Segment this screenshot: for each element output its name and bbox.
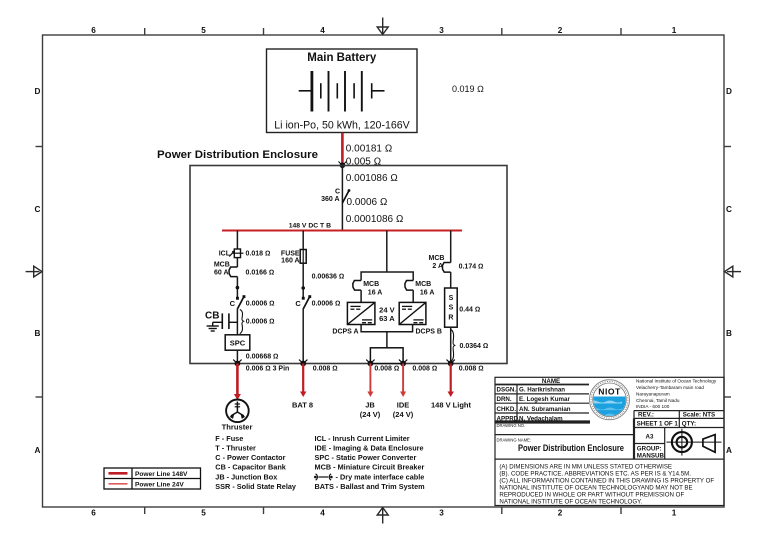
- wire: enclosure entry down to switch: [341, 166, 343, 203]
- svg-text:C - Power Contactor: C - Power Contactor: [215, 453, 285, 462]
- svg-text:0.0006 Ω: 0.0006 Ω: [312, 301, 341, 308]
- wire: fuse to contactor: [302, 263, 304, 298]
- wire: splitter horizontal: [361, 272, 413, 281]
- enclosure box: [190, 166, 507, 364]
- svg-text:A: A: [35, 446, 41, 455]
- svg-text:0.008 Ω: 0.008 Ω: [374, 365, 399, 372]
- power wire 24V to IDE: [402, 364, 404, 393]
- svg-text:Velacherry-Tambaram main road: Velacherry-Tambaram main road: [636, 385, 704, 390]
- svg-text:C: C: [230, 299, 236, 308]
- svg-text:MCB: MCB: [214, 262, 230, 269]
- svg-text:NAME: NAME: [542, 378, 560, 385]
- legend swatch: power line 24V: [109, 483, 128, 485]
- svg-text:JB - Junction Box: JB - Junction Box: [215, 472, 277, 481]
- NIOT logo: [590, 380, 630, 420]
- svg-text:16 A: 16 A: [420, 290, 435, 297]
- wire: bus to fuse: [302, 231, 304, 250]
- svg-text:D: D: [726, 87, 732, 96]
- static power converter SPC: [225, 335, 250, 350]
- svg-text:63 A: 63 A: [379, 314, 395, 323]
- svg-text:4: 4: [320, 26, 325, 35]
- svg-text:0.0001086 Ω: 0.0001086 Ω: [346, 214, 404, 225]
- svg-text:0.00668 Ω: 0.00668 Ω: [246, 354, 279, 361]
- svg-text:REPRODUCED IN WHOLE OR PART WI: REPRODUCED IN WHOLE OR PART WITHOUT PREM…: [499, 492, 684, 499]
- svg-text:R: R: [448, 315, 453, 322]
- svg-text:0.0006 Ω: 0.0006 Ω: [246, 319, 275, 326]
- wire: DCPS outputs to junction box: [361, 325, 413, 332]
- fuse FUSE 160 A: [281, 250, 306, 265]
- svg-text:16 A: 16 A: [368, 290, 383, 297]
- svg-text:Thruster: Thruster: [222, 423, 253, 432]
- breaker MCB 16 A (B): [405, 281, 435, 297]
- legend text left column: [215, 434, 297, 491]
- svg-text:(B). CODE PRACTICE. ABBREVIATI: (B). CODE PRACTICE. ABBREVIATIONS ETC. A…: [499, 471, 691, 478]
- wire: bus to ICL: [236, 231, 238, 250]
- svg-text:Main Battery: Main Battery: [307, 52, 377, 64]
- svg-text:REV.:: REV.:: [638, 412, 654, 419]
- node: junction at enclosure top: [338, 162, 342, 166]
- svg-text:4: 4: [320, 509, 325, 518]
- svg-text:0.0006 Ω: 0.0006 Ω: [246, 301, 275, 308]
- svg-text:C: C: [335, 189, 340, 196]
- node JB right: [399, 360, 407, 367]
- power wire 148V to BAT 8: [302, 364, 304, 393]
- svg-text:DRAWING NAME:: DRAWING NAME:: [497, 438, 532, 443]
- svg-text:C: C: [35, 205, 41, 214]
- svg-text:MCB - Miniature Circuit Breake: MCB - Miniature Circuit Breaker: [315, 463, 425, 472]
- svg-text:Power Line 148V: Power Line 148V: [135, 471, 188, 478]
- svg-text:Power Distribution Enclosure: Power Distribution Enclosure: [518, 443, 624, 453]
- node JB left: [366, 360, 374, 367]
- svg-text:ICL - Inrush Current Limiter: ICL - Inrush Current Limiter: [315, 434, 410, 443]
- svg-text:T - Thruster: T - Thruster: [215, 443, 256, 452]
- breaker MCB 16 A (A): [353, 281, 383, 297]
- svg-text:1: 1: [672, 509, 677, 518]
- svg-text:G. Harikrishnan: G. Harikrishnan: [519, 387, 565, 394]
- svg-text:1: 1: [672, 26, 677, 35]
- capacitor bank CB: [205, 310, 237, 329]
- power wire 24V to JB: [369, 364, 371, 393]
- svg-text:0.0166 Ω: 0.0166 Ω: [246, 270, 275, 277]
- svg-text:CB - Capacitor Bank: CB - Capacitor Bank: [215, 463, 286, 472]
- svg-text:MCB: MCB: [429, 255, 445, 262]
- projection symbol: [667, 429, 722, 456]
- svg-text:APPRD.: APPRD.: [497, 415, 521, 422]
- svg-text:0.006 Ω 3 Pin: 0.006 Ω 3 Pin: [246, 365, 290, 372]
- svg-text:- Dry mate interface cable: - Dry mate interface cable: [336, 472, 425, 481]
- address block: [636, 379, 717, 409]
- wire: bus to MCB 2A: [450, 231, 452, 263]
- converter DCPS B: [399, 302, 426, 324]
- svg-text:SPC: SPC: [230, 338, 246, 347]
- svg-text:DRAWING NO.: DRAWING NO.: [497, 423, 526, 428]
- svg-text:0.174 Ω: 0.174 Ω: [459, 264, 484, 271]
- svg-text:CB: CB: [205, 310, 219, 321]
- wire: contactor to enclosure bottom: [302, 308, 304, 363]
- svg-text:0.008 Ω: 0.008 Ω: [412, 365, 437, 372]
- wire: SPC to enclosure bottom: [236, 350, 238, 363]
- wire: bus to splitter: [386, 231, 388, 273]
- notes text: [499, 464, 714, 506]
- svg-text:INDIA - 600 100: INDIA - 600 100: [636, 404, 670, 409]
- svg-text:F - Fuse: F - Fuse: [215, 434, 243, 443]
- switch C 360 A: [321, 189, 350, 204]
- wire: battery to enclosure, 148V power line: [341, 133, 344, 165]
- svg-text:IDE - Imaging & Data Enclosure: IDE - Imaging & Data Enclosure: [315, 443, 424, 452]
- svg-text:0.00636 Ω: 0.00636 Ω: [312, 274, 345, 281]
- breaker MCB 2 A: [429, 255, 451, 272]
- svg-text:CHKD.: CHKD.: [497, 406, 517, 413]
- svg-text:160 A: 160 A: [281, 258, 299, 265]
- wire: contactor to SPC: [236, 308, 238, 335]
- legend symbol: dry mate connector: [314, 474, 333, 480]
- svg-text:0.00181 Ω: 0.00181 Ω: [346, 144, 393, 155]
- svg-text:QTY:: QTY:: [682, 421, 696, 428]
- node: [236, 286, 240, 290]
- svg-text:Power Distribution Enclosure: Power Distribution Enclosure: [157, 149, 318, 161]
- svg-text:2 A: 2 A: [432, 263, 443, 270]
- svg-text:ICL: ICL: [219, 251, 231, 258]
- bus: 148 V DC TB: [222, 230, 462, 232]
- svg-text:NIOT: NIOT: [598, 387, 621, 397]
- svg-text:BATS - Ballast and Trim System: BATS - Ballast and Trim System: [315, 482, 426, 491]
- svg-text:148 V Light: 148 V Light: [431, 401, 472, 410]
- wire: switch to bus: [341, 203, 343, 231]
- svg-text:0.008 Ω: 0.008 Ω: [459, 365, 484, 372]
- svg-text:AN. Subramanian: AN. Subramanian: [519, 406, 571, 413]
- svg-text:S: S: [449, 305, 454, 312]
- svg-text:N. Vedachalam: N. Vedachalam: [519, 415, 563, 422]
- relay SSR: [445, 288, 458, 327]
- title block: [495, 377, 724, 505]
- svg-text:MANSUB: MANSUB: [637, 452, 665, 459]
- legend text right column: [315, 434, 426, 491]
- svg-text:Chennai, Tamil Nadu: Chennai, Tamil Nadu: [636, 398, 680, 403]
- svg-text:(C) ALL INFORMANTION CONTAINED: (C) ALL INFORMANTION CONTAINED IN THIS D…: [499, 478, 714, 485]
- svg-text:5: 5: [201, 509, 206, 518]
- contactor C (thruster): [230, 295, 246, 308]
- svg-text:148 V DC T B: 148 V DC T B: [289, 223, 331, 230]
- svg-text:National Institute of Ocean Te: National Institute of Ocean Technology: [636, 379, 717, 384]
- node: [447, 360, 455, 367]
- wire: MCB to contactor: [236, 277, 238, 298]
- svg-text:6: 6: [91, 509, 96, 518]
- power wire 148V to thruster: [236, 364, 239, 396]
- battery B1 Main Battery: [267, 49, 418, 133]
- svg-text:0.44 Ω: 0.44 Ω: [459, 307, 480, 314]
- svg-text:S: S: [449, 295, 454, 302]
- svg-text:360 A: 360 A: [321, 196, 339, 203]
- svg-text:Li ion-Po, 50 kWh, 120-166V: Li ion-Po, 50 kWh, 120-166V: [274, 120, 410, 132]
- svg-text:SHEET 1 OF 1: SHEET 1 OF 1: [637, 421, 679, 428]
- svg-text:FUSE: FUSE: [281, 251, 300, 258]
- svg-text:(A) DIMENSIONS ARE IN MM UNLES: (A) DIMENSIONS ARE IN MM UNLESS STATED O…: [499, 464, 672, 471]
- power wire 148V to light: [450, 364, 452, 393]
- svg-text:DSGN.: DSGN.: [497, 387, 517, 394]
- svg-text:0.0006 Ω: 0.0006 Ω: [347, 197, 388, 208]
- svg-text:0.019 Ω: 0.019 Ω: [452, 84, 484, 94]
- svg-text:DRN.: DRN.: [497, 396, 512, 403]
- brace and value label 0.0364 ohm: [451, 330, 455, 362]
- node: 3 pin bulkhead: [233, 360, 241, 367]
- svg-text:0.001086 Ω: 0.001086 Ω: [346, 173, 398, 184]
- thruster T: [226, 400, 249, 423]
- svg-text:BAT 8: BAT 8: [292, 401, 313, 410]
- svg-text:E. Logesh Kumar: E. Logesh Kumar: [519, 396, 570, 403]
- svg-text:(24 V): (24 V): [360, 410, 381, 419]
- legend key box: [104, 468, 201, 489]
- inrush current limiter ICL: [219, 249, 244, 258]
- svg-text:A: A: [726, 446, 732, 455]
- svg-text:Narayanapuram: Narayanapuram: [636, 392, 670, 397]
- svg-text:0.0364 Ω: 0.0364 Ω: [460, 343, 489, 350]
- wire: MCB to DCPS B: [412, 290, 414, 302]
- wire: MCB to DCPS A: [360, 290, 362, 302]
- svg-text:5: 5: [201, 26, 206, 35]
- wire: MCB to SSR: [450, 272, 452, 288]
- converter DCPS A: [347, 302, 375, 324]
- contactor C (BAT): [295, 295, 311, 308]
- svg-text:2: 2: [558, 26, 563, 35]
- svg-text:D: D: [35, 87, 41, 96]
- wire: ICL to MCB: [236, 258, 238, 267]
- svg-text:C: C: [726, 205, 732, 214]
- svg-text:A3: A3: [646, 433, 654, 440]
- breaker MCB 60 A: [214, 262, 238, 277]
- svg-text:NATIONAL INSTITUTE OF OCEAN TE: NATIONAL INSTITUTE OF OCEAN TECHNOLOGYAN…: [499, 485, 692, 492]
- node: [299, 360, 307, 367]
- node: [301, 286, 305, 290]
- svg-text:B: B: [726, 329, 732, 338]
- svg-text:0.018 Ω: 0.018 Ω: [246, 251, 271, 258]
- svg-text:2: 2: [558, 509, 563, 518]
- ground: [207, 322, 219, 331]
- svg-text:Scale: NTS: Scale: NTS: [683, 412, 715, 419]
- svg-text:DCPS B: DCPS B: [416, 329, 442, 336]
- svg-text:MCB: MCB: [415, 281, 431, 288]
- svg-text:6: 6: [91, 26, 96, 35]
- svg-text:SSR - Solid State Relay: SSR - Solid State Relay: [215, 482, 297, 491]
- legend swatch: power line 148V: [109, 472, 128, 475]
- svg-text:IDE: IDE: [397, 401, 410, 410]
- svg-text:B: B: [35, 329, 41, 338]
- svg-text:SPC - Static Power Converter: SPC - Static Power Converter: [315, 453, 417, 462]
- brace and value label 0.0006 ohm: [240, 310, 244, 334]
- svg-text:60 A: 60 A: [214, 270, 229, 277]
- svg-text:(24 V): (24 V): [393, 410, 414, 419]
- wire: SSR to enclosure bottom: [450, 327, 452, 363]
- svg-text:3: 3: [439, 509, 444, 518]
- svg-text:C: C: [295, 299, 301, 308]
- junction box JB: [370, 348, 403, 364]
- svg-text:NATIONAL INSTITUTE OF OCEAN TE: NATIONAL INSTITUTE OF OCEAN TECHNOLOGY.: [499, 499, 642, 506]
- svg-text:0.008 Ω: 0.008 Ω: [313, 365, 338, 372]
- svg-text:JB: JB: [365, 401, 375, 410]
- svg-text:MCB: MCB: [363, 281, 379, 288]
- svg-text:3: 3: [439, 26, 444, 35]
- svg-text:Power Line 24V: Power Line 24V: [135, 482, 184, 489]
- svg-text:DCPS A: DCPS A: [332, 329, 358, 336]
